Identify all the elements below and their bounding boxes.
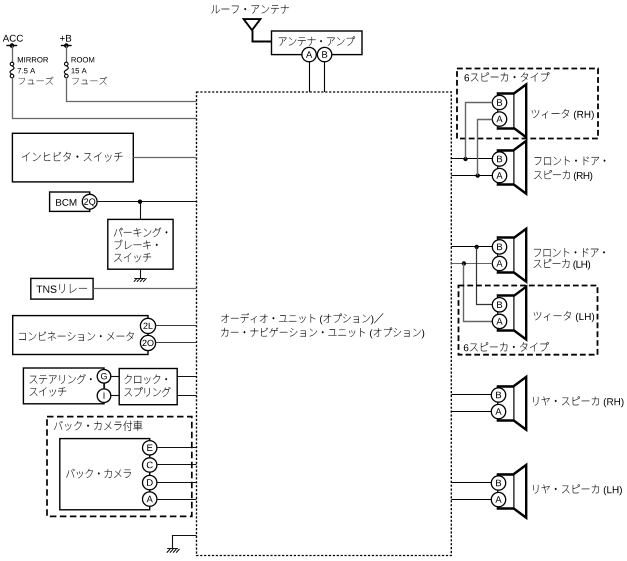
wire antenna B to unit xyxy=(324,62,326,92)
fuse ROOM 15A xyxy=(65,62,69,66)
ground parking brake xyxy=(134,278,145,280)
label audio unit option line1 xyxy=(221,313,383,323)
label rear speaker LH xyxy=(533,484,599,493)
pin C back camera xyxy=(143,458,157,472)
pin B tweeter LH xyxy=(492,298,506,312)
wire camera A to unit xyxy=(157,499,197,501)
label tweeter LH xyxy=(534,311,571,321)
label front door speaker RH xyxy=(535,156,606,165)
junction parking brake branch xyxy=(138,200,142,204)
pin A tweeter LH xyxy=(492,314,506,328)
option frame back-camera-equipped cars xyxy=(47,417,192,517)
module clock spring xyxy=(119,369,177,405)
pin A tweeter RH xyxy=(492,112,506,126)
pin A antenna amp xyxy=(302,47,316,61)
option frame 6-speaker type LH xyxy=(459,286,598,355)
wire main unit to ground xyxy=(173,536,197,549)
wire branch to tweeter LH A xyxy=(464,264,493,322)
label fuse ACC xyxy=(19,77,54,85)
pin 2O combination meter xyxy=(140,335,155,350)
wire camera E to unit xyxy=(157,447,197,449)
pin D back camera xyxy=(143,475,157,489)
wire camera D to unit xyxy=(157,482,197,484)
junction LH B branch xyxy=(475,245,479,249)
wire unit to rear LH B xyxy=(451,482,491,484)
pin B rear LH xyxy=(491,476,505,490)
wire ACC vertical xyxy=(12,46,14,63)
wire unit to front door RH B xyxy=(451,158,492,160)
pin A rear RH xyxy=(491,404,505,418)
label rear speaker RH xyxy=(533,396,599,405)
wire inhibitor to unit xyxy=(133,157,196,159)
pin B antenna amp xyxy=(317,47,331,61)
pin B front door RH xyxy=(492,152,506,166)
amplifier antenna amp xyxy=(272,31,363,55)
pin 2L combination meter xyxy=(140,318,155,333)
wire unit to rear RH B xyxy=(451,394,491,396)
relay TNS xyxy=(31,278,93,299)
node +B power feed xyxy=(60,35,71,42)
module BCM xyxy=(50,192,90,211)
wire clock spring lower to unit xyxy=(177,395,196,397)
pin E back camera xyxy=(143,441,157,455)
switch inhibitor xyxy=(12,133,133,182)
label roof antenna xyxy=(211,5,289,14)
antenna roof antenna symbol xyxy=(244,19,261,30)
wire branch to parking brake switch xyxy=(140,202,142,220)
wire branch to tweeter LH B xyxy=(477,247,493,305)
wire ACC to unit xyxy=(13,78,197,119)
wire I to clock spring xyxy=(111,395,119,397)
wire unit to front door RH A xyxy=(451,175,492,177)
pin A front door RH xyxy=(492,168,506,182)
wire BCM to unit xyxy=(97,201,196,203)
junction RH B branch xyxy=(463,157,467,161)
label 6-speaker type RH xyxy=(471,72,550,81)
wire antenna A to unit xyxy=(309,62,311,92)
wire G-I link xyxy=(104,383,106,389)
node ACC power feed xyxy=(3,35,23,42)
pin G steering switch xyxy=(97,370,111,384)
wire clock spring upper to unit xyxy=(177,376,196,378)
switch steering xyxy=(23,368,104,404)
label 6-speaker type LH xyxy=(470,342,549,351)
junction LH A branch xyxy=(462,261,466,265)
pin A front door LH xyxy=(492,256,506,270)
main unit audio/navigation (dashed box) xyxy=(197,92,452,556)
wire branch to tweeter RH B xyxy=(466,103,493,159)
pin A rear LH xyxy=(491,492,505,506)
camera back camera xyxy=(60,439,150,510)
wire parking brake to ground xyxy=(140,269,142,278)
wire +B vertical xyxy=(66,46,68,63)
speaker front door RH xyxy=(514,141,526,194)
pin I steering switch xyxy=(97,389,111,403)
ground main unit xyxy=(167,548,178,550)
speaker rear LH xyxy=(514,465,526,518)
speaker tweeter RH xyxy=(514,84,526,137)
label fuse +B xyxy=(72,77,107,85)
fuse MIRROR 7.5A xyxy=(10,62,14,66)
wire branch to tweeter RH A xyxy=(478,120,493,176)
wire unit to front door LH B xyxy=(451,246,492,248)
wire unit to rear RH A xyxy=(451,411,491,413)
wire camera C to unit xyxy=(157,464,197,466)
junction RH A branch xyxy=(476,173,480,177)
wire +B to unit xyxy=(67,78,197,102)
pin A back camera xyxy=(143,492,157,506)
speaker front door LH xyxy=(514,229,526,282)
wire unit to front door LH A xyxy=(451,263,492,265)
wire 2O to unit xyxy=(156,342,197,344)
speaker rear RH xyxy=(514,377,526,430)
wire unit to rear LH A xyxy=(451,499,491,501)
label front door speaker LH xyxy=(534,248,605,257)
label back camera equipped xyxy=(54,421,142,431)
label tweeter RH xyxy=(532,109,569,119)
wire TNS to unit xyxy=(93,288,196,290)
pin B rear RH xyxy=(491,388,505,402)
speaker tweeter LH xyxy=(514,287,526,340)
pin B tweeter RH xyxy=(492,95,506,109)
label navigation unit option line2 xyxy=(221,328,420,338)
option frame 6-speaker type RH xyxy=(457,69,598,139)
wire 2L to unit xyxy=(156,325,197,327)
switch parking brake xyxy=(108,219,173,269)
meter combination xyxy=(13,316,148,355)
pin 2Q BCM xyxy=(82,194,97,209)
pin B front door LH xyxy=(492,240,506,254)
wire G to clock spring xyxy=(111,376,119,378)
